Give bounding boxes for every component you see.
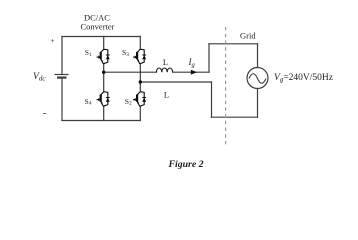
wire riser to grid top <box>208 44 210 72</box>
svg-text:S2: S2 <box>125 97 132 107</box>
wire left leg upper <box>103 37 105 50</box>
svg-text:L: L <box>164 90 169 100</box>
svg-text:Grid: Grid <box>240 31 256 41</box>
svg-text:+: + <box>50 36 54 45</box>
transistor S3 <box>133 49 146 64</box>
wire lower output <box>140 81 211 83</box>
svg-text:L: L <box>163 57 168 67</box>
svg-text:S1: S1 <box>85 48 92 58</box>
transistor S4 <box>97 92 110 107</box>
battery Vdc <box>55 75 69 78</box>
arrow Ig current <box>191 70 197 75</box>
wire right leg middle <box>139 64 141 92</box>
wire left leg lower <box>103 107 105 121</box>
node junction left leg <box>102 71 105 74</box>
wire right leg lower <box>139 107 141 121</box>
wire grid right upper <box>257 44 259 68</box>
inductor L coil <box>156 68 172 72</box>
svg-text:Vg=240V/50Hz: Vg=240V/50Hz <box>274 73 333 84</box>
wire grid bottom <box>212 116 258 118</box>
svg-text:Converter: Converter <box>81 22 115 32</box>
wire right leg upper <box>139 37 141 50</box>
wire left rail lower <box>61 78 63 121</box>
svg-text:Vdc: Vdc <box>33 72 46 83</box>
wire grid right lower <box>257 89 259 118</box>
wire grid top <box>209 43 258 45</box>
wire grid left lower <box>211 82 213 117</box>
dashed grid boundary <box>225 27 227 147</box>
wire upper output after inductor <box>173 71 209 73</box>
wire left rail upper <box>61 37 63 75</box>
AC source sine <box>249 74 266 84</box>
wire bottom DC rail <box>62 120 140 122</box>
svg-text:S3: S3 <box>122 48 129 58</box>
node junction right leg <box>139 80 142 83</box>
svg-text:S4: S4 <box>85 97 92 107</box>
svg-text:Ig: Ig <box>188 57 196 69</box>
transistor S2 <box>133 92 146 107</box>
wire upper output to inductor <box>104 71 157 73</box>
wire top DC rail <box>62 36 140 38</box>
wire left leg middle <box>103 64 105 92</box>
svg-text:-: - <box>43 108 46 119</box>
transistor S1 <box>97 49 110 64</box>
svg-text:Figure 2: Figure 2 <box>167 159 203 170</box>
AC source Vg circle <box>247 68 268 89</box>
